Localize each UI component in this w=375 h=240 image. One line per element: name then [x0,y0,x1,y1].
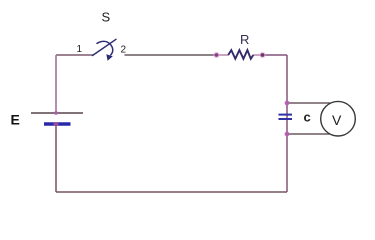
switch S toggle arrow [97,41,113,54]
switch S blade [93,39,117,55]
switch arrowhead [106,54,113,61]
resistor R zigzag [228,50,253,59]
resistor node marker left [213,52,219,58]
svg-text:E: E [11,112,20,128]
wire bottom [56,191,287,193]
wire top-left segment [56,54,93,56]
capacitor junction dot bottom [285,132,290,137]
wire voltmeter top branch [287,102,330,104]
battery E bottom plate (short thick, blue) [44,122,71,125]
wire top-middle segment (switch to resistor) [125,54,217,56]
wire resistor right lead (pink tinted) [253,54,263,56]
capacitor junction dot top [285,101,290,106]
wire resistor left lead (pink tinted) [216,54,229,56]
svg-text:R: R [240,32,249,47]
svg-text:1: 1 [77,44,83,55]
voltmeter V circle [321,101,356,136]
svg-text:2: 2 [121,45,127,56]
wire left vertical upper (top to battery) [55,55,57,113]
svg-text:c: c [304,109,311,124]
svg-text:S: S [102,10,111,25]
resistor node marker right [259,52,265,58]
battery E top plate (long) [31,112,83,114]
battery junction dot [54,111,58,115]
wire top-right segment [263,54,288,56]
wire left vertical lower (battery to bottom) [55,125,57,193]
wire voltmeter bottom branch [287,133,330,135]
battery plate magenta tick [54,122,59,126]
capacitor C plates [279,114,293,116]
svg-text:V: V [332,112,342,128]
wire right vertical [286,55,288,192]
